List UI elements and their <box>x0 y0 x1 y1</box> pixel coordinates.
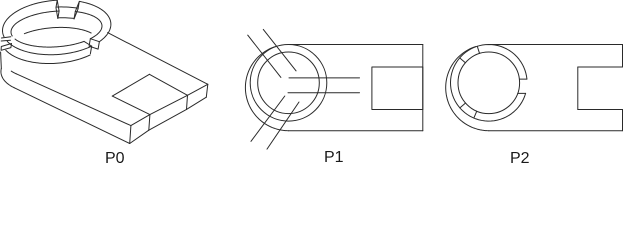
ring cut edge at left gap (segment C start) top chord <box>2 37 11 38</box>
plate right end top edge upper (V1-G) <box>188 84 208 95</box>
P1 outline top line <box>289 44 423 46</box>
P2 ring cut line NW notch right <box>477 46 479 53</box>
P2 outline bottom line <box>489 130 623 132</box>
left gap shelf front edge <box>1 39 10 42</box>
ring cut face at castle gap (segment C end) <box>56 0 59 18</box>
P2 ring cut line NW notch left <box>460 58 466 63</box>
pocket floor inner edge (back) <box>24 27 91 33</box>
ring cut edge at E gap (segment B start) outer vertical <box>90 46 91 53</box>
plate bottom edge across notch mouth (Gb-G2b) <box>149 109 187 130</box>
label P0 <box>105 150 125 168</box>
P1 outline right edge <box>422 45 424 131</box>
plate top lower tangent edge <box>16 74 131 126</box>
plate bottom edge V1b-Gb <box>187 97 207 109</box>
plate bottom lower tangent edge <box>14 88 130 144</box>
P1 outline plate round arc <box>245 47 288 131</box>
P2 ring cut line SW notch upper <box>474 111 477 118</box>
plate bottom round edge (front-left) <box>1 68 14 87</box>
P2 ring cut line E gap lower <box>518 92 526 94</box>
P1 construction line SW-slot left <box>251 96 285 141</box>
fork notch top edge (E-G) <box>149 74 187 95</box>
plate top upper tangent edge <box>108 33 208 85</box>
ring cut face at left gap (segment B end) <box>1 44 11 51</box>
P1 outline bottom line <box>289 130 423 132</box>
ring segment B (front) top outer arc <box>7 41 91 54</box>
vertical edge V1 <box>206 84 208 97</box>
vertical edge V2 <box>130 126 131 144</box>
fork notch lower edge (F-G2) <box>112 96 150 115</box>
ring cut edge at E gap (segment B start) top chord <box>84 41 92 46</box>
plate top edge across notch mouth (G2-G) <box>150 95 188 114</box>
plate bottom edge V2b-G2b <box>130 130 149 143</box>
fork notch left edge (E-F) <box>112 74 149 96</box>
plate top round edge (front-left) <box>11 71 16 74</box>
castle gap shelf outer edge <box>56 7 78 8</box>
ring outer wall bottom edge (front) <box>6 50 90 63</box>
P2 fork notch top edge <box>578 66 623 68</box>
plate right end top edge lower (V2-G2) <box>131 115 150 126</box>
ring segment B top inner arc <box>15 39 84 47</box>
P1 construction line horizontal lower <box>288 92 360 94</box>
ring segment C top inner arc <box>11 11 59 36</box>
P1 construction line SW-slot right <box>267 102 299 149</box>
P2 fork notch bottom edge <box>578 109 623 111</box>
vertical edge G <box>187 95 188 109</box>
ring cut face at castle gap (segment A start) <box>74 1 79 19</box>
P2 outline right edge lower <box>622 110 624 131</box>
P1 fork notch rectangle <box>372 67 423 110</box>
P1 ring inner circle <box>258 52 320 114</box>
P2 ring cut line E gap upper <box>519 78 527 80</box>
ring segment A top inner arc <box>75 12 102 39</box>
label P2 <box>510 150 530 168</box>
P2 fork notch left edge <box>577 67 579 110</box>
P1 construction line NW-slot lower <box>263 29 296 71</box>
P2 outline plate round arc <box>446 47 489 131</box>
P2 outline right edge upper <box>622 45 624 68</box>
vertical edge G2 <box>149 115 150 131</box>
P2 ring cut line SW notch lower <box>460 103 466 108</box>
ring segment C (upper-left) top outer arc <box>3 0 58 37</box>
P2 ring inner circle <box>458 52 520 114</box>
P2 outline top line <box>489 44 623 46</box>
ring segment A (top-right) top outer arc <box>79 1 111 41</box>
ring cut face at E gap (segment A end) <box>89 39 99 49</box>
P1 construction line NW-slot upper <box>248 35 281 77</box>
P1 ring outer circle <box>250 45 327 122</box>
label P1 <box>324 149 344 167</box>
P1 construction line horizontal upper <box>289 77 360 79</box>
P2 ring outer circle (except E gap) <box>451 45 527 122</box>
castle gap shelf inner edge <box>58 17 74 20</box>
plate left silhouette vertical <box>0 52 2 68</box>
